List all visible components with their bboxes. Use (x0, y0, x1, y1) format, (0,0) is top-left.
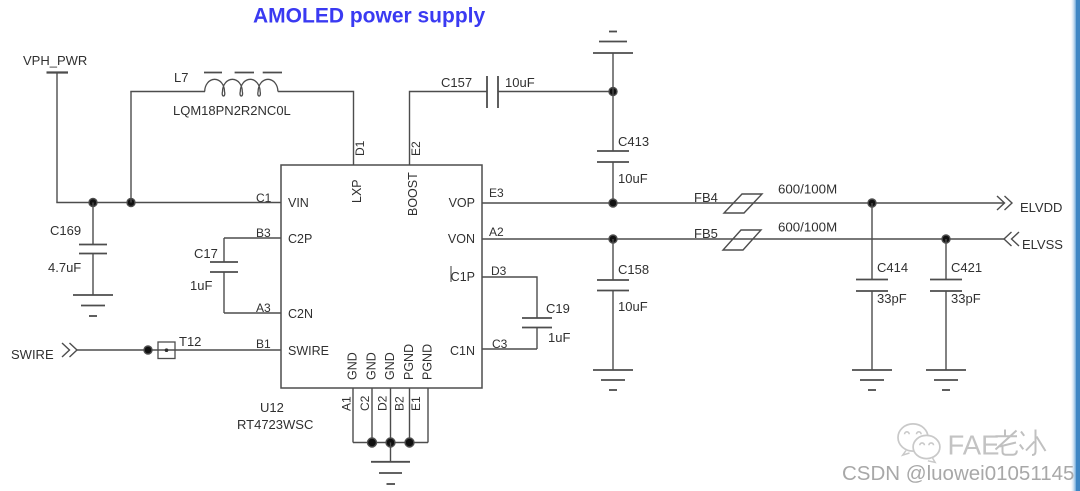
svg-text:GND: GND (365, 352, 379, 380)
capacitor C19 (522, 318, 552, 349)
test point T12 (158, 342, 175, 359)
svg-text:ELVSS: ELVSS (1022, 237, 1063, 252)
capacitor C169 (79, 203, 107, 296)
port chevron SWIRE (62, 343, 77, 357)
svg-text:GND: GND (346, 352, 360, 380)
svg-text:LXP: LXP (350, 179, 364, 203)
svg-text:1uF: 1uF (548, 330, 570, 345)
power flag VPH_PWR (47, 71, 69, 73)
svg-text:U12: U12 (260, 400, 284, 415)
port chevron ELVDD (997, 196, 1012, 210)
capacitor C158 (597, 239, 629, 370)
svg-text:PGND: PGND (421, 344, 435, 380)
svg-text:A2: A2 (489, 225, 504, 239)
wire SWIRE net (77, 349, 281, 351)
tick mark left of C1P label (450, 266, 452, 282)
junction dot C413 at VOP (609, 199, 617, 207)
ground under C414 (852, 370, 892, 390)
svg-text:RT4723WSC: RT4723WSC (237, 417, 313, 432)
svg-text:E1: E1 (409, 396, 423, 411)
wire C1P stub D3 to C19 (482, 277, 537, 318)
wire GND pin C2 (371, 388, 373, 443)
junction dot gnd B2 (405, 438, 414, 447)
ground under U12 (371, 443, 410, 485)
svg-text:B2: B2 (393, 396, 407, 411)
capacitor C414 (856, 203, 888, 370)
wire C2P stub B3 (224, 237, 281, 239)
watermark glyph bing (1020, 430, 1046, 456)
wire L7 branch riser (130, 92, 132, 203)
wire VON / ELVSS net (482, 238, 1004, 240)
svg-text:VIN: VIN (288, 196, 309, 210)
ground under C158 (593, 370, 633, 390)
svg-text:VPH_PWR: VPH_PWR (23, 53, 87, 68)
wire C1N stub C3 (482, 348, 537, 350)
svg-text:C157: C157 (441, 75, 472, 90)
capacitor C17 (210, 238, 238, 313)
svg-text:33pF: 33pF (877, 291, 907, 306)
ground under C169 (73, 295, 113, 316)
ferrite bead FB4 (724, 194, 762, 213)
ferrite bead FB5 (723, 230, 761, 250)
svg-text:T12: T12 (179, 334, 201, 349)
svg-text:C1: C1 (256, 191, 272, 205)
svg-text:4.7uF: 4.7uF (48, 260, 81, 275)
svg-text:FAE: FAE (948, 430, 1000, 461)
svg-text:600/100M: 600/100M (778, 220, 837, 235)
inverted ground at top (593, 32, 633, 92)
svg-text:C1P: C1P (451, 270, 475, 284)
svg-text:SWIRE: SWIRE (11, 347, 54, 362)
svg-text:AMOLED power supply: AMOLED power supply (253, 5, 486, 28)
junction dot at L7 tap (127, 199, 135, 207)
junction dot gnd C2 (368, 438, 377, 447)
svg-text:E2: E2 (409, 141, 423, 156)
svg-text:10uF: 10uF (505, 75, 535, 90)
junction dot at C169 tap (89, 199, 97, 207)
svg-text:GND: GND (383, 352, 397, 380)
svg-text:10uF: 10uF (618, 299, 648, 314)
svg-text:C2N: C2N (288, 307, 313, 321)
wire PGND pin B2 (409, 388, 411, 443)
junction dot C414 tap (868, 199, 876, 207)
svg-text:33pF: 33pF (951, 291, 981, 306)
svg-text:L7: L7 (174, 70, 188, 85)
svg-text:C3: C3 (492, 337, 508, 351)
svg-text:600/100M: 600/100M (778, 182, 837, 197)
svg-text:E3: E3 (489, 186, 504, 200)
wire PGND pin E1 (427, 388, 429, 443)
ground under C421 (926, 370, 966, 390)
svg-text:B3: B3 (256, 226, 271, 240)
svg-text:C414: C414 (877, 260, 908, 275)
svg-text:10uF: 10uF (618, 171, 648, 186)
inductor L7 (204, 73, 282, 97)
junction dot gnd D2 (386, 438, 395, 447)
svg-text:D2: D2 (376, 395, 390, 411)
svg-text:BOOST: BOOST (406, 172, 420, 216)
svg-text:C19: C19 (546, 301, 570, 316)
svg-text:A1: A1 (340, 396, 354, 411)
svg-text:C2: C2 (358, 395, 372, 411)
svg-text:C17: C17 (194, 246, 218, 261)
capacitor C413 (597, 92, 629, 204)
svg-text:D3: D3 (491, 264, 507, 278)
svg-text:LQM18PN2R2NC0L: LQM18PN2R2NC0L (173, 103, 291, 118)
svg-text:C169: C169 (50, 223, 81, 238)
wire BOOST pin E2 riser (410, 92, 488, 166)
svg-text:FB5: FB5 (694, 226, 718, 241)
svg-text:PGND: PGND (402, 344, 416, 380)
svg-text:VOP: VOP (449, 196, 475, 210)
svg-text:ELVDD: ELVDD (1020, 200, 1062, 215)
wire GND pin D2 (390, 388, 392, 443)
wire VIN rail (56, 202, 281, 204)
svg-text:VON: VON (448, 232, 475, 246)
svg-text:A3: A3 (256, 301, 271, 315)
junction dot C157 to gnd rail (609, 88, 617, 96)
svg-text:C2P: C2P (288, 232, 312, 246)
svg-text:CSDN @luowei01051145: CSDN @luowei01051145 (842, 462, 1074, 485)
svg-text:C421: C421 (951, 260, 982, 275)
junction dot C158 at VON (609, 235, 617, 243)
svg-text:FB4: FB4 (694, 190, 718, 205)
wire to inductor (130, 91, 205, 93)
svg-text:C1N: C1N (450, 344, 475, 358)
port chevron ELVSS (1004, 232, 1019, 246)
capacitor C421 (930, 239, 962, 370)
svg-text:C413: C413 (618, 134, 649, 149)
svg-text:SWIRE: SWIRE (288, 344, 329, 358)
svg-text:B1: B1 (256, 337, 271, 351)
watermark wechat icon (898, 424, 940, 463)
svg-text:1uF: 1uF (190, 278, 212, 293)
junction dot C421 tap (942, 235, 950, 243)
wire inductor to LXP pin D1 (278, 92, 354, 166)
wire VOP / ELVDD net (482, 202, 1004, 204)
wire C2N stub A3 (224, 312, 281, 314)
IC U12 body (281, 165, 482, 388)
wire VPH_PWR stem (56, 73, 58, 203)
svg-text:D1: D1 (353, 140, 367, 156)
watermark glyph lao (996, 430, 1018, 455)
capacitor C157 (487, 76, 613, 108)
junction dot SWIRE (144, 346, 152, 354)
wire GND pin A1 (352, 388, 354, 443)
svg-text:C158: C158 (618, 262, 649, 277)
wire ground bus (353, 442, 428, 444)
